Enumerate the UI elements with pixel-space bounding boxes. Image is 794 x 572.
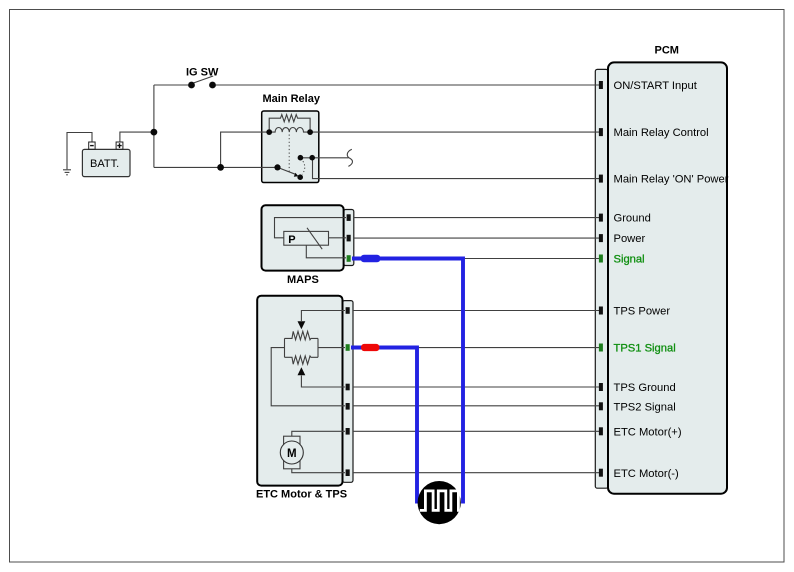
svg-text:Signal: Signal	[614, 254, 645, 266]
svg-text:MAPS: MAPS	[287, 274, 319, 286]
svg-text:TPS Ground: TPS Ground	[614, 382, 676, 394]
svg-text:ETC Motor & TPS: ETC Motor & TPS	[256, 489, 347, 501]
svg-text:Power: Power	[614, 233, 646, 245]
svg-text:TPS Power: TPS Power	[614, 306, 671, 318]
svg-text:IG SW: IG SW	[186, 67, 219, 79]
svg-text:Main Relay Control: Main Relay Control	[614, 127, 709, 139]
svg-text:ETC Motor(-): ETC Motor(-)	[614, 468, 680, 480]
svg-text:ETC Motor(+): ETC Motor(+)	[614, 426, 682, 438]
svg-text:Ground: Ground	[614, 213, 651, 225]
svg-text:Main Relay 'ON' Power: Main Relay 'ON' Power	[614, 174, 729, 186]
svg-text:PCM: PCM	[655, 45, 679, 57]
svg-text:P: P	[288, 234, 295, 246]
svg-text:BATT.: BATT.	[90, 158, 119, 170]
svg-text:M: M	[287, 448, 297, 460]
svg-text:Main Relay: Main Relay	[263, 93, 321, 105]
svg-text:TPS1 Signal: TPS1 Signal	[614, 343, 676, 355]
svg-text:TPS2 Signal: TPS2 Signal	[614, 401, 676, 413]
svg-text:ON/START Input: ON/START Input	[614, 80, 698, 92]
